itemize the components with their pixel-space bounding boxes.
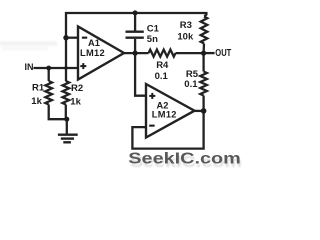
ground — [66, 119, 68, 134]
svg-text:10k: 10k — [177, 31, 194, 42]
wire: R1 bottom to ground node — [49, 105, 67, 120]
resistor R5 — [202, 53, 204, 71]
node: A1 minus junction — [63, 35, 68, 40]
capacitor C1 — [134, 13, 136, 31]
resistor R2 — [63, 81, 70, 105]
wire: A1 output to OUT node (through R4) — [124, 52, 149, 54]
plus sign A1 — [80, 65, 86, 67]
plus sign A2 — [149, 95, 155, 97]
op-amp A2 — [146, 84, 195, 138]
wire: A2 output to node — [195, 110, 204, 112]
resistor R4 — [149, 50, 176, 57]
node: R1 top junction — [46, 66, 51, 71]
svg-text:0.1: 0.1 — [184, 79, 198, 90]
svg-text:R1: R1 — [32, 83, 45, 94]
op-amp A1 — [78, 27, 124, 80]
svg-text:R4: R4 — [156, 60, 169, 71]
faint scan artifact top-left — [0, 42, 57, 51]
node: C1 top junction — [133, 10, 138, 15]
crossing bulge at IN wire — [64, 66, 68, 70]
node: A1 output junction — [133, 51, 138, 56]
svg-text:1k: 1k — [70, 97, 81, 108]
node: ground junction — [64, 117, 69, 122]
svg-text:1k: 1k — [31, 96, 42, 107]
wire: IN lead to plus input of A1 — [33, 67, 79, 69]
wire: minus input of A1 — [66, 37, 79, 39]
resistor R3 — [201, 17, 208, 44]
resistor R1 — [48, 68, 50, 81]
svg-text:LM12: LM12 — [152, 110, 177, 120]
wire: A1 output node down to A2 plus input — [135, 53, 147, 96]
wire: OUT lead — [204, 52, 215, 54]
wire: A2 feedback loop output to minus input — [132, 111, 203, 149]
svg-text:IN: IN — [25, 62, 34, 72]
svg-text:LM12: LM12 — [80, 48, 105, 58]
svg-text:0.1: 0.1 — [155, 71, 169, 82]
wire: vertical from minus node down through IN wire to R2 — [65, 38, 67, 81]
node: OUT junction — [201, 51, 206, 56]
svg-text:5n: 5n — [147, 34, 158, 45]
svg-text:SeekIC.com: SeekIC.com — [128, 151, 241, 168]
svg-text:OUT: OUT — [215, 48, 231, 59]
wire: R2 bottom to ground node — [65, 105, 67, 120]
svg-text:A1: A1 — [88, 38, 100, 48]
minus sign A2 — [149, 125, 154, 127]
minus sign A1 — [82, 37, 87, 39]
svg-text:R3: R3 — [180, 20, 192, 31]
svg-text:C1: C1 — [147, 24, 160, 35]
svg-text:R2: R2 — [71, 83, 83, 94]
node: A2 output junction — [201, 108, 207, 114]
wire: top feedback (node minus of A1 to R3 top) — [66, 13, 206, 38]
